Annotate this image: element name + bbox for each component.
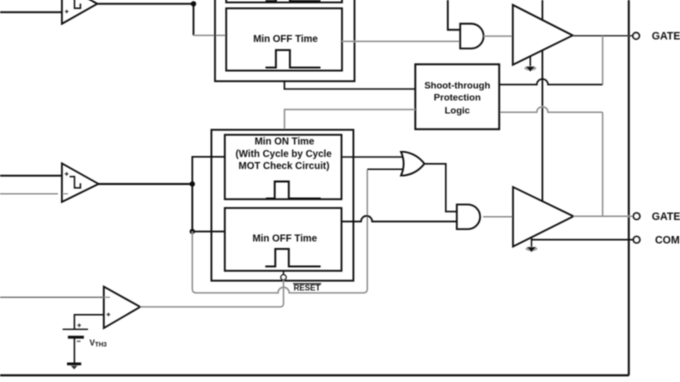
wire: battery to ground: [73, 337, 75, 363]
ground arrow at LO driver: [526, 237, 538, 252]
wire: top input to AND gate (cut at top): [448, 0, 460, 30]
OR gate: [401, 152, 424, 176]
node: U1 output junction: [191, 1, 196, 6]
wire: U4 plus input from VTH3: [74, 315, 103, 330]
block: LO Min OFF Time box: [225, 208, 342, 271]
wire: STP top input from HO box bottom: [284, 81, 415, 89]
wire: STP top output with hop over supply line: [499, 79, 602, 85]
wire: HO gate feedback down to shoot-through logic: [602, 36, 604, 85]
wire: HO driver output to GATE pin: [573, 35, 633, 37]
wire: STP bottom output down to LO gate line: [602, 112, 604, 216]
wire: node B into LO Min OFF box: [192, 231, 225, 233]
svg-text:GATE: GATE: [652, 31, 680, 43]
svg-text:Logic: Logic: [445, 106, 470, 117]
pin: COM: [633, 237, 639, 243]
wire: U4 output to RESET bubble: [140, 280, 283, 307]
block: LO channel outer box: [211, 130, 353, 281]
svg-text:RESET: RESET: [294, 283, 321, 292]
wire: input to U1 plus: [0, 11, 62, 13]
figure right border (IC boundary): [628, 0, 630, 375]
wire: OR output to AND2 top input: [425, 164, 457, 212]
pulse symbol in HO Min OFF box: [266, 50, 321, 68]
svg-text:COM: COM: [655, 234, 680, 246]
block: HO Min OFF Time box: [226, 8, 342, 70]
AND gate (high side): [460, 24, 483, 49]
node B: junction into Min OFF box: [190, 229, 195, 234]
wire: HO Min OFF output to AND gate: [342, 40, 460, 42]
wire: node A up into Min ON Time box: [192, 157, 225, 184]
battery VTH3: [63, 324, 88, 342]
wire: into HO Min OFF Time block: [194, 34, 227, 36]
wire: node A down to node B: [191, 184, 193, 232]
svg-text:Protection: Protection: [434, 92, 481, 103]
pin: GATE (high side): [633, 33, 639, 39]
ground at battery: [67, 364, 81, 370]
wire: U3 output: [99, 183, 195, 185]
comparator U4 (reset comparator): [104, 287, 140, 329]
comparator U1 (high-side input, cut at top): [62, 0, 97, 24]
svg-text:Min OFF Time: Min OFF Time: [253, 234, 318, 245]
block: HO channel outer box (cut at top): [215, 0, 355, 81]
wire: junction down: [193, 4, 195, 36]
wire: U1 output: [97, 3, 196, 5]
driver buffer (high side): [513, 5, 573, 65]
driver buffer (low side): [513, 187, 574, 247]
svg-text:Min ON Time: Min ON Time: [255, 136, 315, 147]
AND gate (low side): [457, 205, 480, 230]
wire: supply line behind HO driver (cut at top): [541, 0, 543, 20]
wire: LO Min OFF output to AND2 with hop over reset loop: [342, 216, 457, 222]
pulse symbol in LO Min OFF box: [265, 249, 320, 267]
wire: STP bottom output with hop over supply line: [499, 107, 602, 113]
wire: AND2 output to LO driver: [483, 216, 513, 218]
block: Shoot-through Protection Logic: [415, 64, 499, 129]
figure bottom border: [0, 374, 629, 376]
wire: AND output to HO driver: [484, 35, 513, 37]
svg-text:Shoot-through: Shoot-through: [424, 80, 490, 91]
wire: U3 minus input: [0, 193, 58, 195]
wire: U3 plus input: [0, 175, 62, 177]
wire: node B reset loop down, right (hop over RESET line), and up to OR gate: [192, 169, 367, 293]
svg-text:(With Cycle by Cycle: (With Cycle by Cycle: [235, 149, 332, 160]
comparator U3 (low-side input): [62, 163, 99, 202]
wire: STP bottom input from LO box top: [285, 110, 416, 130]
block: HO Min ON Time box (cut at top): [226, 0, 342, 2]
wire: LO driver output to GATE pin: [574, 215, 634, 217]
wire: U4 minus input: [0, 296, 104, 298]
node A: U3 output junction: [190, 181, 195, 186]
pulse symbol in Min ON Time box: [266, 182, 321, 199]
RESET input bubble: [281, 275, 286, 280]
wire: Min ON Time output to OR gate: [342, 156, 403, 158]
pin: GATE (low side): [633, 213, 639, 219]
svg-text:Min OFF Time: Min OFF Time: [253, 34, 318, 45]
svg-text:GATE: GATE: [652, 211, 680, 223]
wire: OR gate bottom input: [367, 168, 403, 170]
RESET input: stub from Min OFF box: [283, 271, 285, 275]
block: Min ON Time box: [225, 135, 342, 199]
svg-text:MOT Check Circuit): MOT Check Circuit): [239, 161, 330, 172]
ground arrow at HO driver: [524, 56, 536, 71]
label: RESET (active low, overline): [293, 283, 321, 292]
wire: supply line continuing down to LO driver: [541, 50, 543, 201]
wire: COM line from LO driver reference: [532, 239, 634, 241]
pulse symbol in HO Min ON box (mostly cut): [266, 0, 321, 1]
